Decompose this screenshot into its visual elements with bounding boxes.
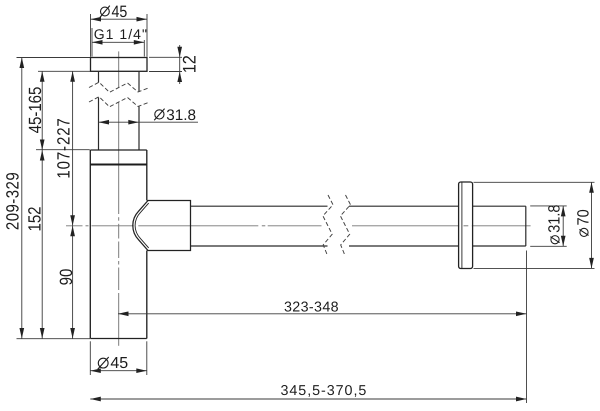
dimension ⌀70: label (575, 209, 593, 236)
svg-text:209-329: 209-329 (3, 172, 23, 230)
dimension 90: arrows (70, 226, 75, 339)
break symbol on outlet pipe (right zigzag) (340, 195, 350, 256)
dimension 90: dimension line (72, 226, 74, 339)
dimension 107-227: arrows (70, 71, 75, 226)
left extension lines (flange top / flange bottom / bottle top / bottle bottom) (17, 58, 91, 339)
svg-text:31.8: 31.8 (546, 205, 564, 233)
dimension 345,5-370,5: arrows (90, 397, 526, 402)
dimension ⌀31.8 right: label (546, 205, 564, 244)
dimension 107-227: dimension line (72, 71, 74, 226)
dimension G1 1/4": extension lines (92, 28, 144, 57)
tailpiece pipe walls (99, 72, 140, 150)
outlet pipe walls (191, 206, 526, 246)
svg-text:12: 12 (180, 55, 200, 73)
dimension 209-329: dimension line (21, 58, 23, 339)
break symbol on outlet pipe (left zigzag) (323, 195, 333, 256)
dimension ⌀45 top: label (100, 3, 127, 22)
dimension 12: extension lines (149, 57, 182, 71)
svg-text:31.8: 31.8 (166, 107, 196, 124)
dimension ⌀45 top: extension lines (91, 14, 148, 57)
dimension 323-348: arrows (118, 311, 527, 316)
elbow bell inner curve (double line) (135, 203, 149, 248)
dimension ⌀31.8 right: dimension line (562, 206, 564, 246)
dimension ⌀45 bottom: extension lines (90, 341, 147, 375)
dimension ⌀45 top: arrows (91, 17, 148, 22)
horizontal centerline of outlet pipe (66, 225, 531, 227)
dimension 152: dimension line (41, 150, 43, 339)
dimension ⌀31.8 tailpiece: arrows (99, 120, 139, 125)
dimension 45-165: arrows (40, 71, 45, 150)
svg-text:G1 1/4": G1 1/4" (94, 26, 148, 42)
dimension G1 1/4": arrows (92, 40, 144, 45)
svg-text:152: 152 (25, 206, 45, 231)
dimension ⌀70: arrows (589, 182, 594, 268)
svg-text:323-348: 323-348 (284, 300, 339, 316)
dimension ⌀45 bottom: arrows (90, 368, 147, 373)
bottle body (90, 150, 147, 339)
dimension ⌀45 bottom: label (98, 355, 129, 372)
top flange (G1 1/4 nut) (91, 58, 148, 72)
wall escutcheon disc (459, 182, 473, 269)
svg-text:45-165: 45-165 (25, 87, 45, 134)
svg-text:45: 45 (112, 3, 128, 22)
svg-text:45: 45 (110, 355, 128, 372)
dimension 345,5-370,5: dimension line (90, 398, 526, 400)
dimension ⌀45 bottom: dimension line (90, 370, 147, 372)
svg-text:345,5-370,5: 345,5-370,5 (281, 383, 368, 399)
wall escutcheon inner edge line (461, 183, 463, 269)
svg-text:107-227: 107-227 (54, 117, 74, 178)
break symbol on tailpiece (lower zigzag) (89, 97, 149, 107)
dimension ⌀70: dimension line (591, 182, 593, 268)
elbow bell (outlet nut) (133, 201, 191, 251)
dimension ⌀31.8 right: arrows (561, 206, 566, 246)
dimension 45-165: dimension line (41, 71, 43, 150)
dimension 209-329: arrows (19, 58, 24, 339)
break symbol on tailpiece (upper zigzag) (89, 82, 149, 92)
outlet pipe end cap (525, 206, 527, 246)
dimension G1 1/4": dimension line (92, 41, 144, 43)
dimension ⌀31.8 right: extension lines (530, 206, 567, 246)
dimension 152: arrows (40, 150, 45, 339)
dimension ⌀45 top: dimension line (91, 18, 148, 20)
dimension ⌀31.8 tailpiece: dimension line (99, 121, 199, 123)
dimension 323-348: dimension line (118, 313, 527, 315)
dimension 12: dimension line (179, 45, 181, 84)
vertical centerline of tailpiece/bottle (118, 51, 120, 345)
svg-text:90: 90 (57, 269, 77, 286)
dimension 12: arrows (177, 47, 182, 82)
svg-text:70: 70 (575, 209, 593, 225)
right extension line from pipe end down (for 323-348 and 345,5-370,5) (526, 251, 528, 404)
dimension ⌀70: extension lines (474, 182, 595, 268)
dimension ⌀31.8 tailpiece: label (154, 107, 196, 124)
bottle collar line (90, 164, 147, 166)
